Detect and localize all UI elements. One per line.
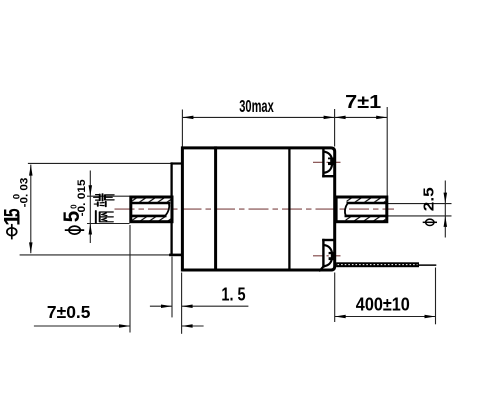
- svg-text:30max: 30max: [239, 96, 274, 116]
- svg-text:7±0.5: 7±0.5: [47, 302, 91, 322]
- svg-text:400±10: 400±10: [356, 293, 410, 314]
- svg-text:1. 5: 1. 5: [221, 284, 245, 305]
- svg-text:7±1: 7±1: [345, 91, 381, 112]
- svg-text:2.5: 2.5: [422, 187, 438, 211]
- svg-text:5: 5: [0, 208, 25, 217]
- svg-text:-0. 03: -0. 03: [19, 178, 31, 208]
- svg-text:-0. 015: -0. 015: [76, 179, 88, 216]
